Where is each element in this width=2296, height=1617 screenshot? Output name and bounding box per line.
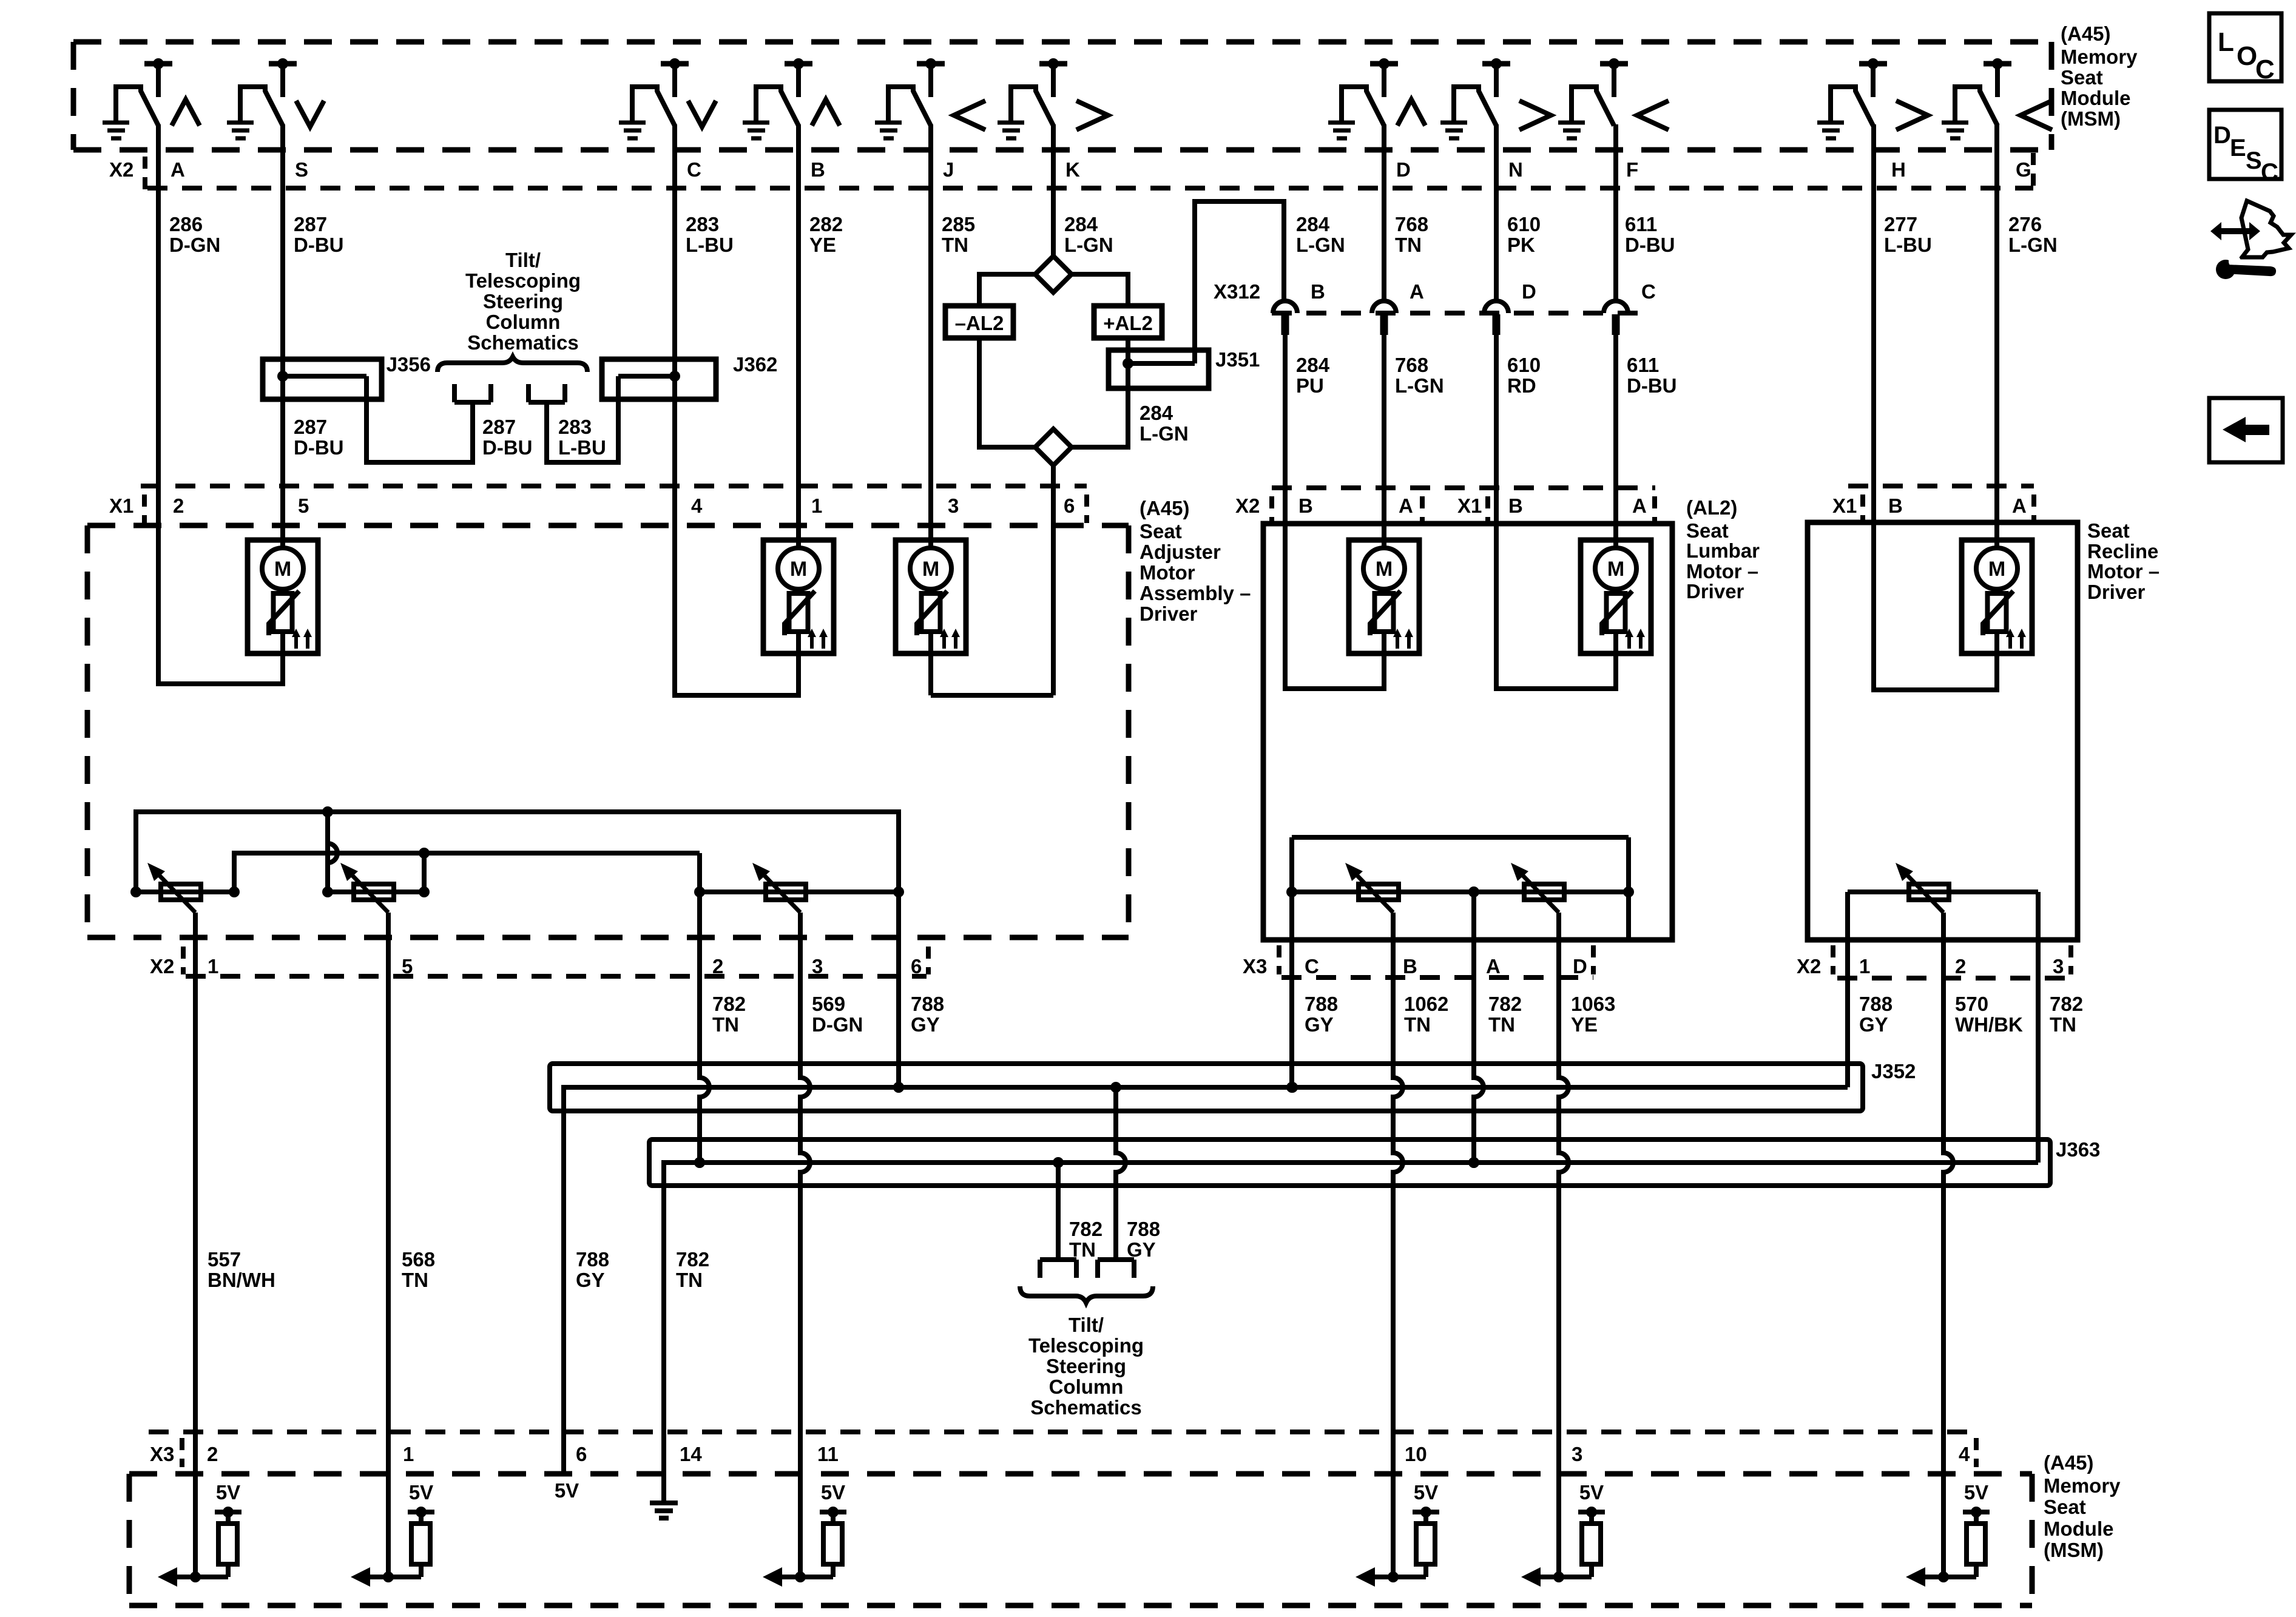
- svg-text:H: H: [1891, 158, 1906, 181]
- svg-text:TN: TN: [1069, 1238, 1096, 1261]
- wire 557 BN/WH pot1 wiper to MSM X3 pin 2: [193, 913, 198, 1577]
- connector X3 (seat lumbar bottom) dashed strip: [1243, 945, 1593, 977]
- svg-text:(AL2): (AL2): [1686, 496, 1737, 519]
- svg-text:YE: YE: [1571, 1013, 1598, 1036]
- svg-text:5V: 5V: [409, 1481, 433, 1504]
- wire lumbar X2-A into motor M4: [1382, 488, 1386, 550]
- svg-text:L-GN: L-GN: [1064, 234, 1113, 256]
- svg-text:C: C: [687, 158, 701, 181]
- label (A45) Memory Seat Module (MSM) - bottom right: [2044, 1451, 2121, 1561]
- switch N with ground (seat control, direction >): [1440, 58, 1551, 138]
- svg-text:X1: X1: [1457, 495, 1482, 517]
- switch B with ground (seat control, direction ^): [743, 58, 840, 138]
- wire label 782 TN (adjuster pin 2): [712, 993, 746, 1036]
- connector diamond (wire 284 lower): [1035, 429, 1072, 465]
- pin A (seat lumbar): [1632, 495, 1647, 517]
- 5V pull-up network at MSM pin 1: [351, 1481, 434, 1587]
- label (A45) seat adjuster: [1140, 497, 1190, 519]
- pot rail 1: [136, 890, 234, 894]
- svg-text:1: 1: [208, 955, 218, 977]
- svg-text:284: 284: [1296, 213, 1330, 235]
- svg-text:M: M: [790, 558, 807, 581]
- wire 284 L-GN from J351 to X312 pin B: [1195, 201, 1284, 363]
- pin B (seat lumbar X3): [1403, 955, 1417, 977]
- svg-text:WH/BK: WH/BK: [1955, 1013, 2023, 1036]
- svg-text:X2: X2: [1797, 955, 1821, 977]
- 5V pull-up network at MSM pin 4: [1906, 1481, 1990, 1587]
- svg-text:TN: TN: [942, 234, 968, 256]
- switch C with ground (seat control, direction v): [619, 58, 716, 138]
- svg-text:14: 14: [680, 1443, 702, 1465]
- svg-text:Schematics: Schematics: [467, 331, 578, 354]
- pin A (seat recline X1): [2012, 495, 2027, 517]
- wire 570 WH/BK recline X2-2 (pot wiper) to MSM pin 4: [1943, 913, 1953, 1577]
- svg-text:284: 284: [1064, 213, 1098, 235]
- svg-text:X312: X312: [1214, 280, 1260, 303]
- wire label 284 L-GN (lower diamond): [1140, 402, 1189, 445]
- svg-text:Adjuster: Adjuster: [1140, 541, 1221, 563]
- svg-text:6: 6: [911, 955, 922, 977]
- svg-text:4: 4: [1959, 1443, 1970, 1465]
- pin 2 (seat recline X2): [1955, 955, 1966, 977]
- svg-text:M: M: [1376, 558, 1393, 581]
- motor M5 (seat lumbar) with position sensor: [1581, 540, 1651, 661]
- in-line connector +AL2: [1094, 306, 1162, 338]
- wire label 286 D-GN (pin A): [169, 213, 220, 256]
- potentiometer seat adjuster 2 (position sensor): [340, 863, 394, 913]
- connector diamond (wire 284 upper): [1035, 256, 1072, 292]
- svg-text:(MSM): (MSM): [2061, 107, 2121, 130]
- svg-text:569: 569: [812, 993, 845, 1015]
- svg-text:4: 4: [691, 495, 703, 517]
- wire label 782 TN (recline 3): [2050, 993, 2083, 1036]
- svg-text:(A45): (A45): [2044, 1451, 2094, 1474]
- svg-text:C: C: [2255, 55, 2275, 84]
- icon LOC button: [2209, 13, 2281, 84]
- X312 pin C half-circle terminal: [1604, 280, 1656, 335]
- pin 1 (seat recline X2): [1859, 955, 1870, 977]
- svg-text:A: A: [2012, 495, 2027, 517]
- wire diamond to -AL2: [979, 274, 1035, 306]
- potentiometer seat adjuster 3 (position sensor): [752, 863, 806, 913]
- wire label 1063 YE (lumbar D): [1571, 993, 1615, 1036]
- svg-text:C: C: [1305, 955, 1319, 977]
- pin B (seat recline X1): [1888, 495, 1903, 517]
- wire label 277 L-BU (pin H): [1884, 213, 1932, 256]
- svg-text:TN: TN: [1488, 1013, 1515, 1036]
- svg-text:B: B: [1298, 495, 1313, 517]
- pin J (MSM X2): [943, 158, 954, 181]
- svg-text:O: O: [2237, 41, 2257, 71]
- pin 5 (seat adjuster X2): [402, 955, 413, 977]
- svg-text:Motor –: Motor –: [1686, 560, 1758, 582]
- wire label 285 TN (pin J): [942, 213, 975, 256]
- svg-text:X2: X2: [109, 158, 133, 181]
- svg-text:Seat: Seat: [1686, 519, 1729, 542]
- svg-text:Assembly –: Assembly –: [1140, 582, 1251, 604]
- pin D (seat lumbar X3): [1573, 955, 1587, 977]
- svg-text:5V: 5V: [1579, 1481, 1604, 1504]
- wire label 557 BN/WH: [208, 1248, 275, 1291]
- svg-text:D-BU: D-BU: [1627, 374, 1676, 397]
- svg-text:283: 283: [558, 416, 592, 438]
- svg-text:788: 788: [576, 1248, 609, 1271]
- wire label 284 L-GN (J351 to X312): [1296, 213, 1345, 256]
- svg-text:B: B: [1403, 955, 1417, 977]
- svg-text:1063: 1063: [1571, 993, 1615, 1015]
- svg-text:(A45): (A45): [2061, 22, 2111, 45]
- Seat Adjuster Motor Assembly (A45) dashed enclosure: [87, 525, 1129, 937]
- svg-text:TN: TN: [1404, 1013, 1431, 1036]
- svg-text:L-BU: L-BU: [686, 234, 734, 256]
- svg-text:L-GN: L-GN: [2008, 234, 2058, 256]
- svg-text:TN: TN: [712, 1013, 739, 1036]
- half connector cup (782 TN steering column): [1040, 1260, 1076, 1278]
- pin F (MSM X2): [1626, 158, 1638, 181]
- label J351: [1215, 348, 1260, 371]
- svg-text:287: 287: [294, 213, 327, 235]
- svg-text:277: 277: [1884, 213, 1917, 235]
- svg-text:L-BU: L-BU: [558, 436, 606, 459]
- brace - tilt/telescoping steering column (top): [437, 357, 587, 372]
- wire 768 TN pin D down to X312-A: [1382, 124, 1386, 301]
- wire label 788 GY (lumbar C): [1305, 993, 1338, 1036]
- svg-text:TN: TN: [402, 1269, 428, 1291]
- svg-text:285: 285: [942, 213, 975, 235]
- svg-text:Seat: Seat: [2087, 519, 2130, 542]
- wire lumbar X1-B to motor M5 return: [1496, 488, 1616, 689]
- svg-text:5V: 5V: [1414, 1481, 1438, 1504]
- wire lumbar X2-B to motor M4 return: [1285, 488, 1384, 689]
- wire 782 TN J363 to steering column cup: [1056, 1163, 1061, 1260]
- svg-text:Motor: Motor: [1140, 561, 1195, 584]
- svg-text:J: J: [943, 158, 954, 181]
- svg-text:B: B: [811, 158, 825, 181]
- svg-text:5: 5: [298, 495, 309, 517]
- svg-text:S: S: [295, 158, 308, 181]
- connector X2 (seat recline bottom) dashed strip: [1797, 945, 2071, 978]
- wire 285 TN pin J down to motor M3: [928, 124, 933, 550]
- wire label 283 L-BU (cup 2): [558, 416, 606, 459]
- svg-text:A: A: [1410, 280, 1424, 303]
- svg-text:TN: TN: [1395, 234, 1422, 256]
- pin B (seat lumbar): [1298, 495, 1313, 517]
- svg-text:L-GN: L-GN: [1140, 422, 1189, 445]
- wire 788 GY recline X2-1 to splice J352: [1845, 892, 1850, 1087]
- text Seat Adjuster Motor Assembly - Driver: [1140, 520, 1251, 625]
- svg-text:X3: X3: [150, 1443, 174, 1465]
- Memory Seat Module (MSM) (A45) dashed enclosure - bottom: [129, 1474, 2032, 1605]
- svg-text:N: N: [1508, 158, 1523, 181]
- pin 6 (seat adjuster X2): [911, 955, 922, 977]
- svg-text:284: 284: [1296, 354, 1330, 376]
- svg-text:Seat: Seat: [2044, 1496, 2086, 1518]
- switch A with ground (seat control, direction ^): [103, 58, 200, 138]
- svg-text:J356: J356: [387, 353, 431, 376]
- svg-text:(A45): (A45): [1140, 497, 1190, 519]
- svg-text:J351: J351: [1215, 348, 1260, 371]
- wire label 570 WH/BK (recline 2): [1955, 993, 2023, 1036]
- lumbar pot rail: [1286, 886, 1634, 897]
- label X312: [1214, 280, 1260, 303]
- svg-text:782: 782: [1488, 993, 1522, 1015]
- splice J362 box on wire 283: [602, 359, 716, 399]
- svg-text:TN: TN: [2050, 1013, 2076, 1036]
- label (A45) Memory Seat Module (MSM) - top right: [2061, 22, 2138, 130]
- svg-text:Schematics: Schematics: [1030, 1396, 1141, 1419]
- svg-text:6: 6: [1064, 495, 1075, 517]
- wire label 611 D-BU: [1627, 354, 1676, 397]
- svg-text:L: L: [2218, 27, 2234, 57]
- pin 14 (MSM X3): [680, 1443, 702, 1465]
- pin 3 (MSM X3): [1572, 1443, 1582, 1465]
- pot rail 3: [694, 886, 899, 897]
- wire 1063 YE lumbar X3-D (pot wiper) to MSM pin 3: [1559, 913, 1568, 1577]
- svg-text:2: 2: [207, 1443, 218, 1465]
- svg-text:557: 557: [208, 1248, 241, 1271]
- svg-text:276: 276: [2008, 213, 2042, 235]
- svg-text:D-BU: D-BU: [294, 234, 343, 256]
- wire 286 D-GN pin A down to motor M1 return loop: [158, 124, 283, 684]
- svg-text:Motor –: Motor –: [2087, 560, 2159, 582]
- wire 611 D-BU X312-C to lumbar X1-A: [1613, 335, 1618, 488]
- 5V pull-up network at MSM pin 11: [763, 1481, 846, 1587]
- svg-text:2: 2: [173, 495, 184, 517]
- splice J363 enclosure (782 TN): [649, 1139, 2050, 1186]
- svg-text:M: M: [1607, 558, 1624, 581]
- svg-text:788: 788: [1305, 993, 1338, 1015]
- svg-text:Tilt/: Tilt/: [505, 249, 541, 271]
- wire label 569 D-GN (adjuster pin 3): [812, 993, 863, 1036]
- pin A (seat lumbar X3): [1486, 955, 1501, 977]
- in-line connector X312 dashed line: [1272, 311, 1638, 316]
- wire label 287 D-BU (below J356): [294, 416, 343, 459]
- splice J352 enclosure (788 GY): [550, 1064, 1863, 1111]
- svg-text:Seat: Seat: [1140, 520, 1182, 542]
- svg-text:3: 3: [948, 495, 959, 517]
- wire label 782 TN (to MSM pin 14 ground): [676, 1248, 709, 1291]
- svg-text:1: 1: [811, 495, 822, 517]
- X312 pin B half-circle terminal: [1273, 280, 1325, 335]
- wire pot low-side link (line to 782 TN pin 2): [229, 848, 700, 897]
- pin H (MSM X2): [1891, 158, 1906, 181]
- svg-text:287: 287: [294, 416, 327, 438]
- svg-text:D: D: [1522, 280, 1536, 303]
- svg-text:10: 10: [1405, 1443, 1427, 1465]
- wire label 1062 TN (lumbar B): [1404, 993, 1448, 1036]
- wire recline X1-B to motor M6 return: [1874, 486, 1997, 690]
- svg-text:GY: GY: [1127, 1238, 1156, 1261]
- svg-text:1: 1: [1859, 955, 1870, 977]
- svg-text:11: 11: [817, 1443, 839, 1465]
- svg-text:1062: 1062: [1404, 993, 1448, 1015]
- svg-text:283: 283: [686, 213, 719, 235]
- pin A (MSM X2): [171, 158, 185, 181]
- svg-text:S: S: [2246, 147, 2262, 174]
- svg-text:5V: 5V: [821, 1481, 845, 1504]
- svg-text:C: C: [1641, 280, 1656, 303]
- svg-text:768: 768: [1395, 213, 1428, 235]
- pin K (MSM X2): [1065, 158, 1080, 181]
- in-line connector -AL2: [945, 306, 1013, 338]
- pin C (MSM X2): [687, 158, 701, 181]
- pin C (seat lumbar X3): [1305, 955, 1319, 977]
- pot rail 2: [328, 890, 424, 894]
- svg-text:D-GN: D-GN: [169, 234, 220, 256]
- svg-text:L-GN: L-GN: [1395, 374, 1444, 397]
- svg-text:GY: GY: [911, 1013, 940, 1036]
- svg-text:M: M: [274, 558, 291, 581]
- svg-text:Telescoping: Telescoping: [465, 269, 581, 292]
- svg-text:Module: Module: [2061, 87, 2130, 109]
- svg-text:D: D: [2213, 122, 2231, 149]
- connector X1 (seat adjuster) dashed strip: [109, 486, 1087, 523]
- svg-text:A: A: [1399, 495, 1413, 517]
- recline pot rail: [1848, 890, 2038, 894]
- svg-text:D-BU: D-BU: [482, 436, 532, 459]
- pin 4 (MSM X3): [1959, 1443, 1970, 1465]
- wire label 284 PU: [1296, 354, 1330, 397]
- pin S (MSM X2): [295, 158, 308, 181]
- motor M4 (seat lumbar) with position sensor: [1349, 540, 1419, 661]
- icon back arrow button: [2209, 398, 2283, 462]
- text Tilt/Telescoping Steering Column Schematics (bottom): [1028, 1314, 1144, 1419]
- wire label 568 TN: [402, 1248, 435, 1291]
- wire +AL2 down through J351 to lower diamond: [1072, 338, 1128, 447]
- svg-text:Tilt/: Tilt/: [1069, 1314, 1104, 1336]
- svg-text:788: 788: [1127, 1218, 1160, 1240]
- svg-text:Seat: Seat: [2061, 66, 2103, 89]
- 5V pull-up network at MSM pin 2: [158, 1481, 241, 1587]
- svg-text:D: D: [1573, 955, 1587, 977]
- svg-text:2: 2: [712, 955, 723, 977]
- pin 10 (MSM X3): [1405, 1443, 1427, 1465]
- Seat Recline Motor enclosure: [1808, 522, 2078, 940]
- svg-text:Memory: Memory: [2044, 1474, 2121, 1497]
- wire 611 D-BU pin F down to X312-C: [1613, 124, 1618, 301]
- svg-text:GY: GY: [576, 1269, 605, 1291]
- half connector cup (788 GY steering column): [1098, 1260, 1134, 1278]
- svg-text:X2: X2: [1235, 495, 1260, 517]
- svg-text:PU: PU: [1296, 374, 1324, 397]
- svg-text:Steering: Steering: [1046, 1355, 1126, 1377]
- svg-text:L-BU: L-BU: [1884, 234, 1932, 256]
- wire 768 L-GN X312-A to lumbar X2-A: [1382, 335, 1386, 488]
- pin 3 (seat adjuster X2): [812, 955, 823, 977]
- wire 568 TN pot2 wiper to MSM X3 pin 1: [386, 913, 391, 1577]
- switch D with ground (seat control, direction ^): [1328, 58, 1425, 138]
- wire 282 YE pin B down to motor M2: [796, 124, 801, 550]
- wire pot2 low side: [419, 853, 430, 897]
- svg-text:5V: 5V: [555, 1479, 579, 1502]
- pin B (MSM X2): [811, 158, 825, 181]
- svg-text:610: 610: [1507, 213, 1541, 235]
- wire -AL2 down to lower diamond: [979, 338, 1035, 447]
- pin 1 (seat adjuster X1): [811, 495, 822, 517]
- svg-text:Column: Column: [1049, 1376, 1124, 1398]
- pin 4 (seat adjuster X1): [691, 495, 703, 517]
- wire lumbar X1-A into motor M5: [1613, 488, 1618, 550]
- svg-text:M: M: [922, 558, 939, 581]
- svg-text:788: 788: [911, 993, 944, 1015]
- pin 1 (MSM X3): [403, 1443, 414, 1465]
- icon wrench with double arrow (diagnostic aid): [2210, 201, 2291, 279]
- svg-text:Steering: Steering: [483, 290, 563, 312]
- pin 11 (MSM X3): [817, 1443, 839, 1465]
- svg-text:3: 3: [812, 955, 823, 977]
- pin 6 (MSM X3): [576, 1443, 587, 1465]
- pin N (MSM X2): [1508, 158, 1523, 181]
- svg-text:287: 287: [482, 416, 516, 438]
- wire 782 TN recline X2-3 to splice J363: [2036, 892, 2041, 1163]
- connector X2 (MSM top) dashed strip: [109, 153, 2033, 189]
- text Seat Lumbar Motor - Driver: [1686, 519, 1760, 603]
- connector X3 (MSM bottom) dashed strip: [149, 1432, 1976, 1467]
- wire 788 GY J352 to steering column cup: [1116, 1087, 1126, 1260]
- motor M6 (seat recline) with position sensor: [1962, 540, 2032, 661]
- svg-text:782: 782: [2050, 993, 2083, 1015]
- svg-text:J363: J363: [2056, 1138, 2100, 1161]
- lumbar position sensor frame: [1292, 837, 1629, 940]
- svg-text:B: B: [1311, 280, 1325, 303]
- svg-text:Driver: Driver: [2087, 581, 2146, 603]
- svg-text:M: M: [1988, 558, 2005, 581]
- wire label 287 D-BU (cup 1): [482, 416, 532, 459]
- svg-text:Module: Module: [2044, 1517, 2113, 1540]
- Memory Seat Module (MSM) (A45) dashed enclosure - top: [73, 42, 2051, 150]
- label J356: [387, 353, 431, 376]
- label (AL2) seat lumbar: [1686, 496, 1737, 519]
- svg-text:Driver: Driver: [1686, 580, 1744, 603]
- svg-text:F: F: [1626, 158, 1638, 181]
- wire label 788 GY (to MSM pin 6): [576, 1248, 609, 1291]
- svg-text:PK: PK: [1507, 234, 1535, 256]
- svg-text:Memory: Memory: [2061, 46, 2138, 68]
- svg-text:GY: GY: [1859, 1013, 1888, 1036]
- wire pot supply rail top link (line to 788 GY pin 6): [130, 806, 904, 1093]
- pin 2 (seat adjuster X1): [173, 495, 184, 517]
- splice J356 box on wire 287: [263, 359, 382, 399]
- pin 2 (seat adjuster X2): [712, 955, 723, 977]
- wire 284 PU X312-B to lumbar X2-B: [1283, 335, 1288, 488]
- wire 788 GY lumbar X3-C to splice J352: [1286, 940, 1297, 1093]
- svg-text:YE: YE: [809, 234, 836, 256]
- pin G (MSM X2): [2016, 158, 2031, 181]
- pin A (seat lumbar): [1399, 495, 1413, 517]
- svg-text:570: 570: [1955, 993, 1988, 1015]
- pin 5 (seat adjuster X1): [298, 495, 309, 517]
- potentiometer seat recline (position sensor): [1896, 863, 1949, 913]
- wire 284 L-GN pin K down to diamond splice: [1051, 124, 1056, 256]
- wire label 610 RD: [1507, 354, 1541, 397]
- svg-text:D-GN: D-GN: [812, 1013, 863, 1036]
- splice J363 wire 782 TN: [664, 1157, 2038, 1503]
- potentiometer seat adjuster 1 (position sensor): [147, 863, 201, 913]
- label J362: [733, 353, 777, 376]
- wire label 788 GY (cup): [1127, 1218, 1160, 1261]
- motor M3 (seat adjuster) with position sensor: [896, 540, 966, 661]
- splice J351 box: [1109, 350, 1209, 388]
- 5V pull-up network at MSM pin 3: [1521, 1481, 1605, 1587]
- svg-text:5V: 5V: [1964, 1481, 1988, 1504]
- svg-text:X1: X1: [109, 495, 133, 517]
- svg-text:286: 286: [169, 213, 203, 235]
- svg-text:611: 611: [1625, 213, 1657, 235]
- X312 pin A half-circle terminal: [1372, 280, 1424, 335]
- svg-text:K: K: [1065, 158, 1080, 181]
- label 5V at MSM pin 6: [555, 1479, 579, 1502]
- ground symbol at MSM pin 14: [650, 1467, 678, 1518]
